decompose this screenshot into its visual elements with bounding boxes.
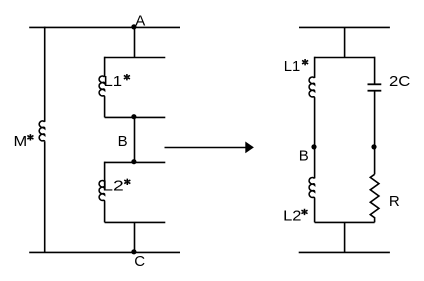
svg-text:L2: L2 bbox=[102, 178, 124, 195]
asterisk of L2* left bbox=[124, 179, 130, 185]
svg-text:C: C bbox=[134, 253, 145, 270]
svg-text:B: B bbox=[299, 147, 309, 164]
wire left branch upper bbox=[44, 27, 46, 122]
wire left branch right circuit lower bbox=[314, 98, 316, 178]
asterisk of L1* right bbox=[302, 59, 308, 65]
resistor R bbox=[370, 174, 379, 222]
wire right branch right circuit upper bbox=[374, 57, 376, 85]
wire node A drop bbox=[134, 27, 136, 57]
node A bbox=[131, 24, 136, 29]
asterisk of L1* left bbox=[124, 74, 130, 80]
node B upper junction left circuit bbox=[131, 114, 136, 119]
wire L2 branch upper bbox=[104, 162, 106, 182]
svg-text:M: M bbox=[14, 133, 28, 150]
inductor L2* right bbox=[309, 178, 314, 199]
wire center top right circuit bbox=[344, 27, 346, 57]
node B right junction right circuit bbox=[371, 144, 376, 149]
capacitor 2C plate bottom bbox=[368, 90, 382, 92]
wire rail L2 top bbox=[105, 161, 166, 163]
wire left branch lower bbox=[44, 142, 46, 253]
svg-text:R: R bbox=[389, 193, 400, 210]
wire bottom rail right circuit bbox=[299, 251, 390, 253]
svg-text:L1: L1 bbox=[284, 58, 300, 75]
wire rail L1 top bbox=[105, 57, 166, 59]
wire box top rail bbox=[315, 57, 375, 59]
wire left branch right circuit bottom bbox=[314, 199, 316, 223]
wire bottom rail left circuit bbox=[29, 251, 180, 253]
asterisk of L2* right bbox=[301, 209, 307, 215]
wire L1 branch lower bbox=[104, 97, 106, 117]
node C bbox=[131, 249, 136, 254]
inductor L1* left bbox=[99, 76, 104, 97]
asterisk of M* bbox=[27, 134, 33, 140]
svg-text:L1: L1 bbox=[104, 73, 123, 90]
node B lower junction left circuit bbox=[131, 159, 136, 164]
svg-text:L2: L2 bbox=[283, 208, 301, 225]
wire node C rise bbox=[134, 222, 136, 252]
wire top rail right circuit bbox=[299, 26, 390, 28]
arrow shaft bbox=[165, 147, 247, 149]
wire L1 branch upper bbox=[104, 57, 106, 77]
node B left junction right circuit bbox=[311, 144, 316, 149]
wire node B segment bbox=[134, 117, 136, 162]
inductor L2* left bbox=[99, 181, 104, 202]
wire center bottom right circuit bbox=[344, 222, 346, 252]
wire rail L1 bottom bbox=[105, 116, 166, 118]
inductor L1* right bbox=[309, 77, 314, 98]
wire rail L2 bottom bbox=[105, 221, 166, 223]
arrowhead bbox=[245, 142, 254, 154]
svg-text:A: A bbox=[135, 12, 145, 29]
capacitor 2C plate top bbox=[368, 83, 382, 85]
svg-text:B: B bbox=[118, 133, 128, 150]
wire right branch right circuit middle bbox=[374, 91, 376, 175]
wire box bottom rail bbox=[315, 221, 375, 223]
inductor M* bbox=[39, 121, 44, 142]
wire left branch right circuit upper bbox=[314, 57, 316, 78]
wire L2 branch lower bbox=[104, 202, 106, 223]
wire top rail left circuit bbox=[29, 26, 180, 28]
svg-text:2C: 2C bbox=[389, 73, 411, 90]
